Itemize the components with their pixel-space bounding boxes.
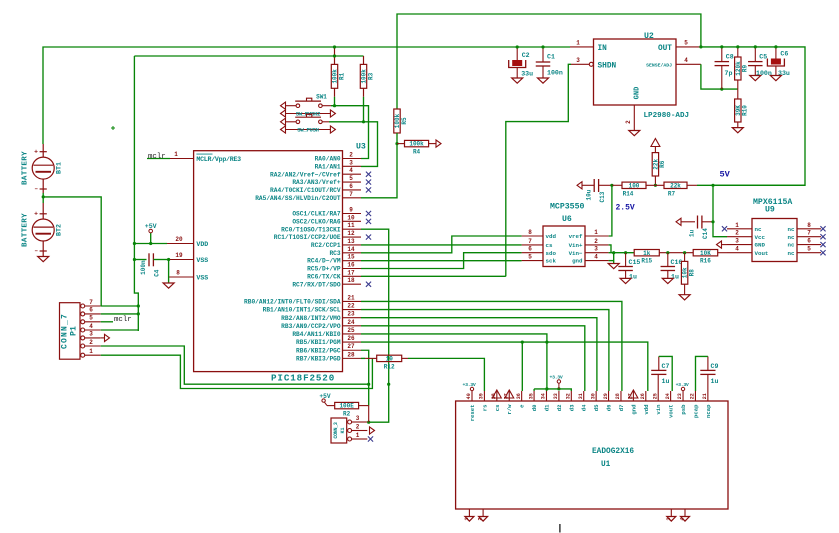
svg-text:2: 2 [349,152,353,159]
svg-text:5: 5 [349,175,353,182]
svg-text:cs: cs [494,404,501,411]
svg-text:+3.3V: +3.3V [676,382,689,388]
pin 13 RC2/CCP1 [343,244,362,246]
svg-text:7p: 7p [725,70,733,77]
svg-text:VSS: VSS [196,274,208,281]
regulator U2 LP2980-ADJ body [594,39,677,105]
wire P1-2 to K1 net [101,346,369,384]
resistor R4 100k with flag [397,143,405,145]
svg-text:10u: 10u [585,189,592,200]
svg-text:100n: 100n [547,69,563,76]
U1 pin 40 reset [471,391,473,401]
svg-text:100: 100 [629,182,640,189]
svg-text:R3: R3 [367,72,374,80]
svg-text:RC5/D+/VP: RC5/D+/VP [307,266,341,273]
ground at U2 GND [629,131,640,136]
svg-text:100E: 100E [339,403,354,410]
U1 pin 33 d2 [558,391,560,401]
ground below R8 [679,295,690,300]
U1 pin 23 psb [682,391,684,401]
svg-text:reset: reset [469,405,476,422]
ground below C15 [620,278,631,283]
ground below C2 [512,78,523,83]
svg-text:RA5/AN4/SS/HLVDin/C2OUT: RA5/AN4/SS/HLVDin/C2OUT [255,195,341,202]
svg-text:gnd: gnd [572,258,583,265]
connector K1 CONN_3 [331,418,347,443]
svg-text:3: 3 [594,246,598,253]
svg-text:vdd: vdd [643,405,650,415]
svg-text:R9: R9 [742,65,749,73]
svg-text:d2: d2 [556,404,563,411]
svg-text:4: 4 [349,167,353,174]
pin 27 RB6/KBI2/PGC [343,349,362,351]
svg-text:GND: GND [755,242,766,249]
svg-text:CONN_7: CONN_7 [61,313,70,349]
capacitor C8 7p [721,47,723,62]
flag at cs [492,390,501,398]
wire 5V top loop to R5 [397,14,701,109]
svg-text:nc: nc [788,242,795,249]
net label mclr at P1-5 [101,321,113,323]
svg-text:13: 13 [347,238,355,245]
svg-text:C2: C2 [522,52,530,59]
svg-text:3: 3 [349,159,353,166]
capacitor C9 1u [707,374,709,391]
resistor R7 22k [646,184,664,186]
svg-text:BT1: BT1 [56,162,63,174]
svg-text:–: – [34,248,38,255]
svg-text:1u: 1u [689,229,696,237]
capacitor C15 1u [625,253,627,267]
svg-text:4: 4 [594,254,598,261]
svg-text:R2: R2 [343,411,351,418]
mcu U3 PIC18F2520 body [194,151,343,372]
3.3V rail at d0-d3 [534,389,571,391]
svg-text:1: 1 [594,229,598,236]
wire U6 gnd down [613,253,615,264]
wire battery junction to P1 [42,193,44,203]
svg-text:C4: C4 [154,269,161,277]
svg-text:Vin+: Vin+ [569,242,583,249]
svg-text:Vcc: Vcc [755,234,766,241]
pin 19 VSS [167,259,194,261]
svg-text:2: 2 [594,238,598,245]
svg-text:3: 3 [89,331,93,338]
capacitor C16 1u [667,253,669,267]
U1 pin 28 d7 [620,391,622,401]
U9 pin 5 nc [797,252,821,254]
svg-text:18: 18 [347,277,355,284]
pin 4 RA2/AN2/Vref−/CVref [343,173,362,175]
svg-text:5: 5 [807,246,811,253]
pin 24 RB3/AN9/CCP2/VPO [343,325,362,327]
svg-text:RA0/AN0: RA0/AN0 [315,156,341,163]
P1 pin 5 [81,320,85,324]
U1 pin 31 d4 [583,391,585,401]
page mark [559,524,561,533]
svg-text:RB7/KBI3/PGD: RB7/KBI3/PGD [296,355,341,362]
svg-text:+: + [34,211,38,218]
U6 pin 2 Vin+ [585,244,609,246]
svg-text:d0: d0 [531,404,538,411]
svg-text:40: 40 [466,393,472,399]
wire P1-4 gnd [101,329,139,331]
svg-text:C6: C6 [780,51,788,58]
ground at U6 gnd [608,264,619,269]
wire SW1 to RA0 [331,106,369,159]
U1 pin 30 d5 [595,391,597,401]
svg-text:1: 1 [174,151,178,158]
capacitor C1 100n [542,47,544,62]
svg-text:RC1/T1OSI/CCP2/UOE: RC1/T1OSI/CCP2/UOE [274,234,341,241]
svg-text:MCLR/Vpp/RE3: MCLR/Vpp/RE3 [196,156,241,163]
svg-text:RB6/KBI2/PGC: RB6/KBI2/PGC [296,347,341,354]
power +5V at R2 [324,402,327,406]
pin 21 RB0/AN12/INT0/FLT0/SDI/SDA [343,300,362,302]
flag at K1-2 [370,427,375,434]
svg-text:d7: d7 [618,405,625,412]
svg-text:vdd: vdd [546,233,557,240]
svg-text:CONN_3: CONN_3 [333,422,339,439]
pin 6 RA4/T0CKI/C1OUT/RCV [343,189,362,191]
P1 pin 3 [81,336,85,340]
svg-text:RB1/AN10/INT1/SCK/SCL: RB1/AN10/INT1/SCK/SCL [263,307,341,314]
svg-text:34: 34 [541,393,547,399]
pin 5 RA3/AN3/Vref+ [343,181,362,183]
svg-text:BATTERY: BATTERY [22,213,30,247]
svg-text:d3: d3 [568,404,575,411]
svg-text:cs: cs [546,242,553,249]
wire RB7 R12 net to rs [361,357,365,359]
wire RB1 pin22 to d6 [361,310,609,391]
battery BT1 [42,144,44,157]
svg-text:gnd: gnd [630,405,637,415]
svg-text:nc: nc [755,226,762,233]
svg-text:22: 22 [690,393,696,399]
svg-text:2: 2 [735,230,739,237]
svg-text:pcap: pcap [692,404,699,418]
adc U6 MCP3550 body [543,226,585,267]
svg-text:10K: 10K [700,250,711,257]
svg-text:36: 36 [516,393,522,399]
svg-text:33u: 33u [778,70,790,77]
pin 22 RB1/AN10/INT1/SCK/SCL [343,309,362,311]
svg-text:R8: R8 [688,269,695,277]
svg-text:SENSE/ADJ: SENSE/ADJ [646,62,672,68]
U6 pin 1 vref [585,235,609,237]
svg-text:d6: d6 [606,404,613,411]
U1 pin 24 vout [670,391,672,401]
svg-text:C1: C1 [547,54,555,61]
no-connect K1-1 [368,436,373,441]
resistor R10 39K [737,89,739,99]
svg-text:7: 7 [807,230,811,237]
svg-text:39: 39 [479,393,485,399]
svg-text:33: 33 [553,393,559,399]
wire 5V rail from BT1+ to U2 IN [43,47,570,144]
svg-text:100n: 100n [140,260,147,275]
svg-text:psb: psb [680,404,687,415]
wire RB4 pin25 to d0 rail [361,334,547,389]
svg-text:6: 6 [807,238,811,245]
capacitor C5 100n [754,47,756,62]
svg-text:25: 25 [652,393,658,399]
U1 pin 29 d6 [608,391,610,401]
svg-text:RC2/CCP1: RC2/CCP1 [311,242,341,249]
resistor R3 100k [363,56,365,64]
svg-text:2: 2 [89,339,93,346]
svg-text:R16: R16 [700,258,711,265]
svg-text:28: 28 [347,351,355,358]
U1 pin 25 vin [657,391,659,401]
svg-text:21: 21 [702,393,708,399]
svg-text:3: 3 [356,415,360,422]
svg-text:6: 6 [528,246,532,253]
pin 20 VDD [167,243,194,245]
resistor R14 100 [612,184,622,186]
svg-text:7: 7 [349,191,353,198]
pin 16 RC5/D+/VP [343,267,362,269]
U1 pin 36 e [521,391,523,401]
svg-text:9: 9 [349,206,353,213]
U6 pin 6 sdo [522,252,543,254]
pin 3 RA1/AN1 [343,165,362,167]
svg-text:C15: C15 [629,259,641,266]
sensor U9 MPX6115A body [752,219,797,262]
P1 pin 4 [81,328,85,332]
svg-text:P1: P1 [70,326,79,336]
wire R5 bottom to RA5 pin [361,133,397,198]
wire RB5 pin26 3.3V row [361,342,648,391]
U6 pin 3 Vin− [585,252,609,254]
svg-text:21: 21 [347,294,355,301]
wire Vin+ jog [609,245,611,253]
svg-text:EADOG2X16: EADOG2X16 [592,448,634,456]
no-connect marks on unused PIC pins [366,172,371,177]
pin 8 VSS [169,276,194,278]
svg-text:BT2: BT2 [56,224,63,236]
U9 pin 8 nc [797,228,821,230]
svg-text:2: 2 [356,424,360,431]
U9 pin 3 GND [727,244,752,246]
svg-text:RC3: RC3 [329,250,340,257]
ground below C16 [662,278,673,283]
svg-text:20: 20 [175,236,183,243]
svg-text:+3.3V: +3.3V [463,382,476,388]
svg-text:1: 1 [735,222,739,229]
svg-text:OSC2/CLKO/RA6: OSC2/CLKO/RA6 [292,218,341,225]
svg-text:SW_PUSH: SW_PUSH [297,126,318,133]
svg-text:rs: rs [481,404,488,411]
svg-text:RC4/D−/VM: RC4/D−/VM [307,258,341,265]
U6 pin 5 sck [522,260,543,262]
pin 4 SENSE/ADJ [676,63,701,65]
svg-text:11: 11 [347,222,355,229]
svg-text:17: 17 [347,269,355,276]
svg-text:vref: vref [569,233,583,240]
svg-text:1u: 1u [662,378,670,385]
wire VDD rail (y=56) [134,55,363,57]
capacitor C13 10u with flag [577,182,582,189]
wire RC2 pin13 to cs [361,244,522,246]
pin 9 OSC1/CLKI/RA7 [343,212,362,214]
junction marker [111,126,115,130]
pin 17 RC6/TX/CK [343,275,362,277]
svg-text:d4: d4 [581,404,588,411]
svg-text:OSC1/CLKI/RA7: OSC1/CLKI/RA7 [292,211,341,218]
wire RB2 pin23 to d5 [361,318,597,391]
svg-text:8: 8 [176,270,180,277]
svg-text:26: 26 [640,393,646,399]
pin 11 RC0/T1OSO/T13CKI [343,228,362,230]
svg-text:C9: C9 [711,363,719,370]
svg-text:35: 35 [528,393,534,399]
svg-text:sck: sck [546,258,557,265]
svg-text:R4: R4 [413,149,421,156]
svg-text:d1: d1 [543,404,550,411]
power +3.3V at d2 [558,383,560,389]
capacitor C6 33u [775,47,777,59]
svg-text:VSS: VSS [196,257,208,264]
svg-text:22: 22 [347,303,355,310]
U1 pin 35 d0 [533,391,535,401]
pin 1 IN [570,46,594,48]
P1 pin 6 [81,312,85,316]
pin 18 RC7/RX/DT/SDO [343,283,362,285]
svg-text:12: 12 [347,230,355,237]
K1 pin 1 [348,437,352,441]
svg-text:PIC18F2520: PIC18F2520 [271,373,335,384]
svg-text:C13: C13 [599,191,606,202]
U1 pin 21 ncap [707,391,709,401]
svg-text:10: 10 [386,355,394,362]
svg-text:1k: 1k [643,250,651,257]
svg-text:d5: d5 [593,404,600,411]
svg-text:Vout: Vout [755,250,769,257]
svg-text:SW1: SW1 [316,94,327,101]
svg-text:sdo: sdo [546,250,557,257]
wire R1 to SW1 net [334,97,336,106]
svg-text:VDD: VDD [196,241,208,248]
flag line row SW_PUSH2 label [285,113,331,115]
wire RC0 pin11 to K1 [361,229,389,422]
pin 5 OUT [676,46,701,48]
svg-text:8: 8 [807,222,811,229]
no-connect U9 pin1 [722,226,727,231]
wire RC3 pin14 to vdd [361,236,522,253]
pin 7 RA5/AN4/SS/HLVDin/C2OUT [343,197,362,199]
U1 pin 22 pcap [694,391,696,401]
svg-text:BATTERY: BATTERY [22,151,30,185]
svg-text:1: 1 [356,432,360,439]
resistor R15 1k [634,250,659,256]
ground below C5 [750,76,761,81]
svg-text:28: 28 [615,393,621,399]
P1 pin 2 [81,344,85,348]
wire RC6 pin17 [361,275,506,277]
svg-text:4: 4 [684,57,688,64]
pin 15 RC4/D−/VM [343,260,362,262]
ground at VSS [163,283,174,288]
svg-text:Vin−: Vin− [569,250,583,257]
svg-text:mclr: mclr [114,316,132,324]
svg-text:27: 27 [347,343,355,350]
display U1 EADOG2X16 body [456,401,728,509]
U9 pin 6 nc [797,244,821,246]
svg-text:RB3/AN9/CCP2/VPO: RB3/AN9/CCP2/VPO [281,323,341,330]
wire filter row [609,252,635,254]
svg-text:+5V: +5V [145,223,157,230]
svg-text:10: 10 [347,214,355,221]
svg-text:6: 6 [89,307,93,314]
svg-text:23: 23 [677,393,683,399]
svg-text:nc: nc [788,226,795,233]
U1 pin 34 d1 [545,391,547,401]
wire 5V to U9 Vcc [713,185,727,236]
svg-text:C14: C14 [702,228,709,239]
svg-text:RC0/T1OSO/T13CKI: RC0/T1OSO/T13CKI [281,226,341,233]
pin 23 RB2/AN8/INT2/VMO [343,317,362,319]
U9 pin 2 Vcc [727,236,752,238]
svg-text:24: 24 [347,319,355,326]
svg-text:3: 3 [735,238,739,245]
P1 pin 1 [81,353,85,357]
svg-text:2: 2 [625,120,632,124]
svg-text:5: 5 [684,39,688,46]
svg-text:1: 1 [89,348,93,355]
svg-text:U9: U9 [765,206,775,215]
U6 pin 7 cs [522,244,543,246]
svg-text:OUT: OUT [658,45,672,53]
pin 28 RB7/KBI3/PGD [343,357,362,359]
U1 pin 39 rs [483,391,485,401]
pin 3 SHDN [589,62,593,66]
svg-text:1: 1 [576,39,580,46]
svg-text:vout: vout [668,405,675,418]
U9 pin 1 nc [727,228,752,230]
svg-text:14: 14 [347,246,355,253]
power +5V at VDD [150,233,152,244]
wire R3 to SW2 net [363,97,365,122]
svg-text:C16: C16 [671,259,683,266]
svg-text:4: 4 [89,323,93,330]
svg-text:LP2980-ADJ: LP2980-ADJ [644,112,690,120]
svg-text:24: 24 [665,393,671,399]
svg-text:U6: U6 [562,215,572,224]
svg-text:R5: R5 [401,117,408,125]
svg-text:+5V: +5V [319,393,330,400]
svg-text:MCP3550: MCP3550 [550,203,584,212]
pin 14 RC3 [343,252,362,254]
K1 pin 2 [348,429,352,433]
capacitor C7 1u [657,374,659,391]
pin 10 OSC2/CLKO/RA6 [343,220,362,222]
U9 pin 4 Vout [727,252,752,254]
svg-text:29: 29 [603,393,609,399]
svg-text:+: + [34,149,38,156]
wire 5V node [697,184,805,186]
wire SENSE to divider [701,64,738,89]
svg-text:100n: 100n [756,70,772,77]
svg-text:mclr: mclr [148,153,166,161]
svg-text:2.5V: 2.5V [616,204,635,213]
svg-text:U1: U1 [601,461,611,469]
svg-text:1u: 1u [711,378,719,385]
svg-text:IN: IN [598,45,608,53]
resistor R16 10K [693,250,718,256]
pin 25 RB4/AN11/KBI0 [343,333,362,335]
svg-text:7: 7 [528,238,532,245]
